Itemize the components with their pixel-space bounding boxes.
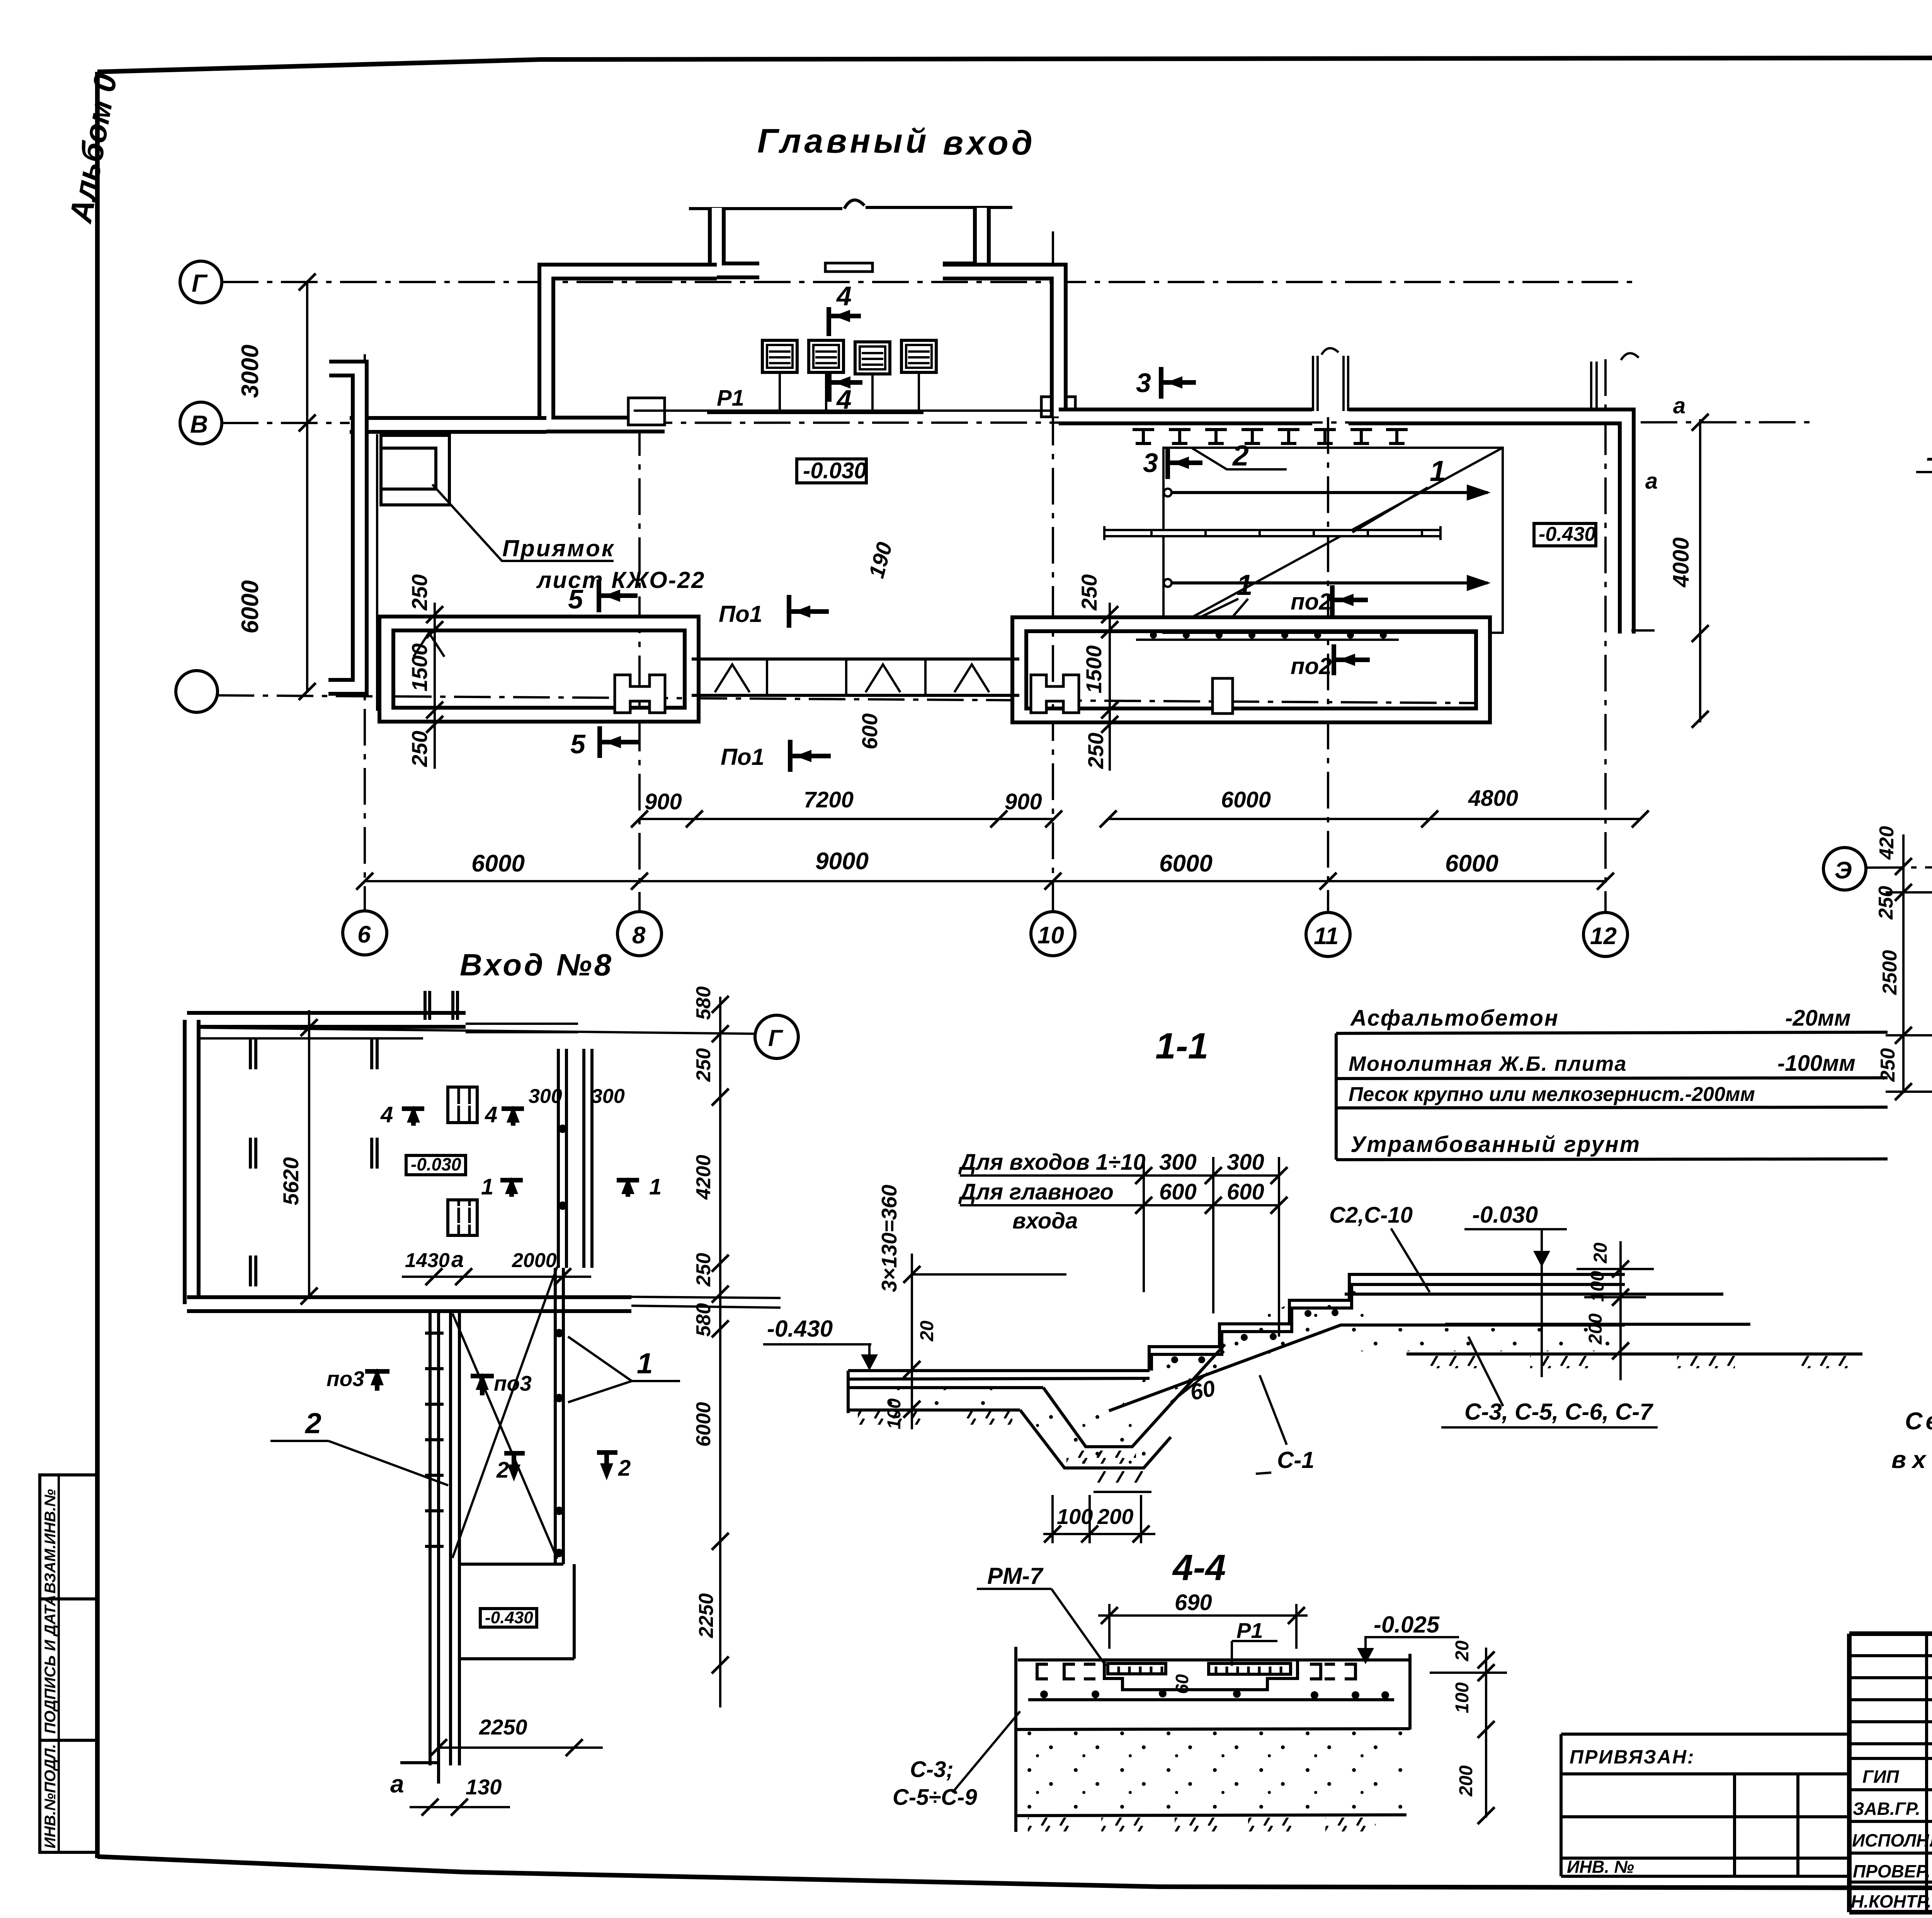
svg-text:С2,С-10: С2,С-10 bbox=[1329, 1203, 1413, 1228]
dashed brackets right bbox=[1310, 1664, 1321, 1679]
svg-text:6000: 6000 bbox=[692, 1402, 715, 1447]
louvre box 2 bbox=[448, 1200, 477, 1235]
box -0.030 bbox=[797, 459, 866, 483]
svg-text:ИНВ.№ПОДЛ.: ИНВ.№ПОДЛ. bbox=[42, 1744, 59, 1848]
pit floor area bbox=[459, 1563, 563, 1566]
svg-text:4: 4 bbox=[380, 1102, 393, 1127]
dashed brackets left bbox=[1037, 1664, 1048, 1679]
svg-text:ИСПОЛН.: ИСПОЛН. bbox=[1852, 1830, 1932, 1850]
svg-text:2250: 2250 bbox=[479, 1715, 527, 1739]
svg-text:-0.450: -0.450 bbox=[1926, 444, 1932, 471]
bottom rebar row right bbox=[1136, 629, 1399, 632]
svg-text:лист КЖО-22: лист КЖО-22 bbox=[536, 567, 705, 593]
material table vline bbox=[1335, 1033, 1338, 1160]
svg-text:1500: 1500 bbox=[1082, 645, 1106, 693]
axis line to circle bbox=[189, 1028, 755, 1034]
svg-text:3×130=360: 3×130=360 bbox=[877, 1184, 901, 1292]
rebar line bbox=[1028, 1698, 1394, 1701]
TITLEBLOCK bbox=[1561, 1634, 1932, 1918]
door leaf bbox=[825, 263, 872, 272]
dim 4000 right bbox=[1699, 419, 1701, 722]
svg-text:250: 250 bbox=[1875, 886, 1897, 920]
svg-text:300: 300 bbox=[591, 1085, 625, 1108]
axis 11 line bbox=[1327, 417, 1329, 912]
border bottom bbox=[97, 1857, 1932, 1889]
svg-text:По1: По1 bbox=[721, 744, 764, 770]
svg-text:12: 12 bbox=[1590, 923, 1617, 950]
svg-text:200: 200 bbox=[1456, 1765, 1476, 1797]
svg-text:КИРИЕНКОВА: КИРИЕНКОВА bbox=[1930, 1830, 1932, 1850]
stair wall right lower bbox=[554, 1268, 557, 1564]
left dim line bbox=[306, 282, 308, 691]
axis circle 11 bbox=[1306, 912, 1350, 956]
svg-text:250: 250 bbox=[407, 731, 432, 767]
svg-text:6000: 6000 bbox=[237, 580, 264, 634]
svg-text:Для главного: Для главного bbox=[958, 1179, 1114, 1204]
svg-text:7200: 7200 bbox=[804, 787, 854, 812]
wall band Г right + down wall bbox=[943, 272, 1059, 416]
axis Б line bbox=[218, 695, 1480, 703]
axis circle 6 bbox=[343, 911, 387, 955]
svg-text:250: 250 bbox=[692, 1253, 715, 1287]
svg-text:5: 5 bbox=[570, 729, 586, 759]
ground hatch bbox=[1028, 1818, 1078, 1831]
bottom foot bbox=[400, 1763, 439, 1784]
svg-text:5620: 5620 bbox=[279, 1157, 303, 1205]
svg-text:по2: по2 bbox=[1291, 589, 1332, 615]
svg-text:вход: вход bbox=[943, 124, 1036, 162]
svg-text:Приямок: Приямок bbox=[502, 535, 615, 561]
window ticks bbox=[250, 1039, 377, 1286]
sand bottom bbox=[1016, 1815, 1406, 1816]
lower-right wall ring bbox=[1019, 624, 1483, 715]
svg-text:ЗАВ.ГР.: ЗАВ.ГР. bbox=[1853, 1799, 1920, 1819]
label 2 leader bbox=[1192, 448, 1287, 469]
louvre 4 bbox=[901, 340, 936, 412]
axis circle 8 bbox=[617, 912, 662, 956]
svg-text:1500: 1500 bbox=[407, 643, 432, 691]
svg-text:Для входов 1÷10: Для входов 1÷10 bbox=[958, 1150, 1146, 1175]
svg-text:-0.430: -0.430 bbox=[485, 1608, 533, 1627]
pit приямок inner bbox=[381, 448, 436, 489]
wall band В right segment2 + right wall bbox=[1349, 416, 1627, 634]
pit leader bbox=[432, 484, 614, 561]
svg-text:200: 200 bbox=[1585, 1313, 1606, 1345]
bottom wall band bbox=[187, 1295, 631, 1313]
svg-text:-100мм: -100мм bbox=[1777, 1051, 1855, 1076]
svg-text:6000: 6000 bbox=[1159, 850, 1213, 877]
svg-text:4-4: 4-4 bbox=[1172, 1547, 1226, 1588]
svg-text:входы даны на листе КЖО-27: входы даны на листе КЖО-27 bbox=[1891, 1446, 1932, 1473]
porch top edge bbox=[689, 207, 842, 210]
stair wall right upper bbox=[557, 1049, 560, 1268]
svg-text:2: 2 bbox=[496, 1458, 509, 1483]
dim table cols bbox=[1143, 1157, 1145, 1292]
notch rect bbox=[628, 398, 665, 425]
svg-text:300: 300 bbox=[529, 1085, 562, 1108]
svg-text:Г: Г bbox=[192, 269, 208, 297]
top wall stubs bbox=[423, 991, 427, 1020]
axis 6 line bbox=[364, 354, 366, 912]
pit under stairs bbox=[1020, 1410, 1171, 1468]
svg-text:По1: По1 bbox=[719, 601, 762, 627]
wall band В right segment1 bbox=[1059, 408, 1312, 425]
privyazan box bbox=[1561, 1734, 1849, 1876]
lower slab left bbox=[848, 1369, 1150, 1372]
SEC22 bbox=[1916, 87, 1932, 703]
svg-text:a: a bbox=[451, 1247, 464, 1272]
wall bolts upper bbox=[558, 1125, 567, 1133]
notch right ring bbox=[1213, 678, 1233, 714]
svg-text:С-1: С-1 bbox=[1277, 1447, 1315, 1473]
svg-text:690: 690 bbox=[1175, 1590, 1212, 1615]
svg-text:1: 1 bbox=[649, 1174, 662, 1199]
VHOD8 bbox=[187, 948, 798, 1816]
slab arrow 2 bbox=[1171, 581, 1488, 584]
svg-text:600: 600 bbox=[1159, 1179, 1197, 1204]
bottom dim row1 bbox=[639, 818, 1054, 820]
svg-text:Вход №8: Вход №8 bbox=[460, 948, 614, 982]
svg-text:С-3, С-5, С-6, С-7: С-3, С-5, С-6, С-7 bbox=[1464, 1399, 1653, 1425]
box -0.430 bbox=[480, 1609, 537, 1627]
slab diagonal bbox=[1163, 448, 1503, 633]
svg-text:a: a bbox=[390, 1770, 404, 1798]
svg-text:6: 6 bbox=[357, 921, 371, 948]
svg-text:4800: 4800 bbox=[1468, 786, 1518, 811]
corridor walkway bbox=[692, 657, 1019, 661]
top wall band bbox=[187, 1011, 466, 1029]
svg-text:Р1: Р1 bbox=[1236, 1618, 1263, 1643]
louvre 1 bbox=[762, 340, 797, 412]
svg-text:ГИП: ГИП bbox=[1862, 1767, 1899, 1787]
sand stipple bbox=[1018, 1731, 1406, 1814]
louvre box 1 bbox=[448, 1087, 477, 1123]
axis Г line bbox=[222, 281, 1638, 283]
svg-text:РМ-7: РМ-7 bbox=[987, 1563, 1044, 1589]
left margin stamp bbox=[40, 1475, 97, 1852]
border top bbox=[97, 57, 1932, 72]
svg-text:100: 100 bbox=[1057, 1504, 1093, 1529]
svg-text:ИНВ. №: ИНВ. № bbox=[1567, 1857, 1634, 1877]
svg-text:250: 250 bbox=[407, 574, 432, 611]
stair slab soffit bbox=[1109, 1325, 1625, 1411]
SEC11 bbox=[763, 1006, 1888, 1543]
svg-text:1-1: 1-1 bbox=[1155, 1026, 1208, 1067]
svg-text:600: 600 bbox=[857, 714, 882, 749]
svg-text:2: 2 bbox=[1232, 439, 1249, 472]
porch left wall bbox=[717, 208, 759, 270]
svg-text:60: 60 bbox=[1188, 1376, 1218, 1405]
stamp outer bbox=[1849, 1634, 1932, 1912]
svg-text:1: 1 bbox=[1430, 455, 1446, 487]
wall band В left bbox=[350, 416, 546, 434]
svg-text:ПРОВЕР.: ПРОВЕР. bbox=[1853, 1861, 1930, 1881]
svg-text:Монолитная Ж.Б. плита: Монолитная Ж.Б. плита bbox=[1349, 1052, 1627, 1075]
svg-text:по2: по2 bbox=[1291, 653, 1332, 679]
MAINPLAN bbox=[176, 122, 1816, 956]
svg-text:2250: 2250 bbox=[695, 1593, 718, 1638]
svg-text:по3: по3 bbox=[327, 1367, 364, 1391]
box -0.030 bbox=[406, 1155, 466, 1175]
channel outline bbox=[1104, 1661, 1298, 1690]
bottom thin lines to 1-1 bbox=[631, 1297, 781, 1298]
svg-text:a: a bbox=[1645, 469, 1658, 494]
svg-text:420: 420 bbox=[1876, 826, 1898, 860]
svg-text:Асфальтобетон: Асфальтобетон bbox=[1350, 1006, 1559, 1031]
axis 10 line bbox=[1052, 231, 1054, 912]
VHODY510 bbox=[1823, 768, 1932, 1258]
svg-text:900: 900 bbox=[1005, 789, 1042, 814]
svg-text:ПРИВЯЗАН:: ПРИВЯЗАН: bbox=[1570, 1746, 1695, 1768]
svg-text:4000: 4000 bbox=[1668, 537, 1694, 588]
svg-text:250: 250 bbox=[1077, 574, 1101, 611]
wall band Г left + L-wall bbox=[546, 272, 717, 425]
svg-text:входа: входа bbox=[1012, 1208, 1078, 1233]
svg-text:С-5÷С-9: С-5÷С-9 bbox=[893, 1785, 977, 1810]
right extension lines bbox=[1541, 1230, 1543, 1377]
left edge bbox=[1014, 1647, 1017, 1832]
step rebar dots bbox=[1171, 1356, 1178, 1363]
axis Ф circle bbox=[755, 1015, 798, 1058]
axis 12 line bbox=[1604, 359, 1607, 912]
svg-text:В: В bbox=[190, 410, 208, 438]
svg-text:Альбом 0: Альбом 0 bbox=[63, 71, 124, 226]
axis Э circle bbox=[1823, 848, 1866, 890]
svg-text:300: 300 bbox=[1159, 1150, 1197, 1175]
svg-text:3000: 3000 bbox=[237, 345, 264, 398]
svg-text:2000: 2000 bbox=[512, 1249, 557, 1272]
svg-text:-0.030: -0.030 bbox=[803, 458, 866, 483]
sand bottom right bbox=[1406, 1352, 1625, 1356]
svg-text:1430: 1430 bbox=[405, 1249, 450, 1272]
corridor walls bbox=[429, 1312, 432, 1765]
svg-text:190: 190 bbox=[864, 540, 897, 581]
svg-text:20: 20 bbox=[917, 1320, 937, 1342]
svg-text:ВЗАМ.ИНВ.№: ВЗАМ.ИНВ.№ bbox=[42, 1489, 59, 1594]
slab arrow 1 bbox=[1171, 491, 1488, 494]
svg-text:6000: 6000 bbox=[1221, 787, 1271, 812]
NOTE bbox=[1891, 1408, 1932, 1473]
svg-text:100: 100 bbox=[1452, 1682, 1473, 1713]
svg-text:200: 200 bbox=[1097, 1504, 1133, 1529]
svg-text:2500: 2500 bbox=[1879, 950, 1901, 995]
svg-text:11: 11 bbox=[1314, 923, 1338, 950]
svg-text:Г: Г bbox=[768, 1025, 784, 1051]
right edge bbox=[1408, 1654, 1412, 1729]
stamp left grid bbox=[1849, 1634, 1932, 1912]
stair mass stipple bbox=[1341, 1328, 1622, 1351]
svg-text:3: 3 bbox=[1136, 368, 1151, 398]
svg-text:300: 300 bbox=[1227, 1150, 1264, 1175]
svg-text:20: 20 bbox=[1452, 1640, 1473, 1661]
I-beam ticks row bbox=[1133, 430, 1408, 443]
big diagonal bbox=[452, 1267, 557, 1558]
svg-text:5: 5 bbox=[568, 584, 583, 614]
axis circle 12 bbox=[1583, 912, 1628, 956]
H column right ring bbox=[1031, 675, 1079, 713]
slab rect right bbox=[1163, 448, 1503, 633]
porch right wall bbox=[943, 208, 982, 270]
SEC44 bbox=[893, 1547, 1507, 1832]
wall bolts lower bbox=[555, 1329, 563, 1337]
svg-text:Утрамбованный грунт: Утрамбованный грунт bbox=[1350, 1132, 1641, 1157]
svg-text:a: a bbox=[1673, 393, 1685, 418]
svg-text:-0.030: -0.030 bbox=[1472, 1202, 1538, 1228]
svg-text:Р1: Р1 bbox=[717, 386, 744, 411]
svg-text:4: 4 bbox=[836, 281, 852, 311]
louvre 3 bbox=[855, 342, 890, 412]
svg-text:2: 2 bbox=[618, 1456, 631, 1481]
svg-text:2: 2 bbox=[304, 1407, 321, 1439]
louvre 2 bbox=[809, 340, 844, 412]
svg-text:ПОДПИСЬ И ДАТА: ПОДПИСЬ И ДАТА bbox=[42, 1595, 59, 1734]
P1 baseline bbox=[707, 411, 923, 414]
slab top bbox=[1018, 1658, 1410, 1661]
svg-text:Э: Э bbox=[1835, 857, 1852, 884]
rebar bar lower bbox=[1445, 1323, 1750, 1326]
slab bottom bbox=[1016, 1729, 1410, 1729]
svg-text:-0.025: -0.025 bbox=[1374, 1612, 1440, 1638]
В face thin line bbox=[634, 409, 1051, 412]
H column left ring bbox=[615, 675, 665, 713]
svg-text:1: 1 bbox=[481, 1174, 493, 1199]
svg-text:Главный: Главный bbox=[757, 122, 930, 160]
svg-text:10: 10 bbox=[1037, 922, 1064, 949]
svg-text:-0.030: -0.030 bbox=[411, 1154, 461, 1174]
svg-text:6000: 6000 bbox=[471, 850, 525, 877]
rebar bar upper bbox=[1345, 1293, 1723, 1296]
svg-text:-0.430: -0.430 bbox=[767, 1316, 833, 1342]
channel hatch strip 1 bbox=[1108, 1663, 1166, 1674]
box -0.430 plan bbox=[1534, 523, 1596, 546]
right dim column bbox=[719, 997, 721, 1707]
border left bbox=[95, 72, 100, 1858]
svg-text:1: 1 bbox=[637, 1347, 653, 1379]
axis Б partial circle bbox=[176, 671, 218, 712]
svg-text:900: 900 bbox=[645, 789, 682, 814]
svg-text:Н.КОНТР.: Н.КОНТР. bbox=[1851, 1891, 1931, 1911]
lower-left wall ring bbox=[386, 623, 692, 715]
svg-text:250: 250 bbox=[1083, 733, 1108, 769]
svg-text:20: 20 bbox=[1590, 1242, 1611, 1264]
axis 8 line bbox=[638, 419, 641, 912]
axis Г circle bbox=[180, 261, 222, 303]
svg-text:130: 130 bbox=[466, 1775, 502, 1799]
svg-text:4200: 4200 bbox=[692, 1155, 715, 1200]
svg-text:250: 250 bbox=[692, 1048, 715, 1082]
svg-text:4: 4 bbox=[836, 384, 852, 415]
corridor inner line bbox=[376, 434, 378, 711]
axis В line bbox=[222, 422, 1816, 423]
bottom dim row2 bbox=[365, 880, 1605, 882]
svg-text:3: 3 bbox=[1143, 448, 1158, 478]
top wall thin ext bbox=[466, 1023, 578, 1025]
left corridor wall bbox=[328, 369, 360, 687]
rebar rail bbox=[1104, 529, 1440, 537]
svg-text:580: 580 bbox=[692, 986, 715, 1020]
stair steps profile bbox=[1149, 1274, 1625, 1371]
stair tread ticks bbox=[425, 1333, 444, 1546]
channel hatch strip 2 bbox=[1209, 1663, 1291, 1674]
axis В circle bbox=[180, 402, 222, 444]
rebar dots bbox=[1040, 1690, 1048, 1698]
svg-text:60: 60 bbox=[1172, 1674, 1192, 1694]
svg-text:Сечения 5-5, 6-6 и спецификац: Сечения 5-5, 6-6 и спецификация элементо… bbox=[1905, 1408, 1932, 1435]
right end wall stubs bbox=[1590, 362, 1592, 409]
axis Э line bbox=[1866, 866, 1932, 868]
right wall bottom tick bbox=[1631, 629, 1655, 632]
svg-text:1: 1 bbox=[1236, 569, 1253, 601]
svg-text:С-3;: С-3; bbox=[910, 1757, 954, 1782]
svg-text:9000: 9000 bbox=[815, 848, 869, 875]
left wall vertical bbox=[183, 1020, 201, 1304]
svg-text:600: 600 bbox=[1227, 1179, 1264, 1204]
svg-text:8: 8 bbox=[632, 922, 646, 949]
notch rect right bbox=[1041, 397, 1075, 417]
svg-text:-0.430: -0.430 bbox=[1539, 523, 1596, 545]
svg-text:-20мм: -20мм bbox=[1785, 1006, 1851, 1031]
svg-text:580: 580 bbox=[692, 1303, 715, 1337]
pit приямок outer bbox=[381, 435, 449, 505]
axis11 porch stubs bbox=[1312, 356, 1314, 411]
axis circle 10 bbox=[1031, 912, 1075, 956]
svg-text:4: 4 bbox=[485, 1102, 497, 1127]
svg-text:Песок крупно или мелкозернист.: Песок крупно или мелкозернист.-200мм bbox=[1349, 1083, 1755, 1106]
svg-text:6000: 6000 bbox=[1445, 850, 1498, 877]
